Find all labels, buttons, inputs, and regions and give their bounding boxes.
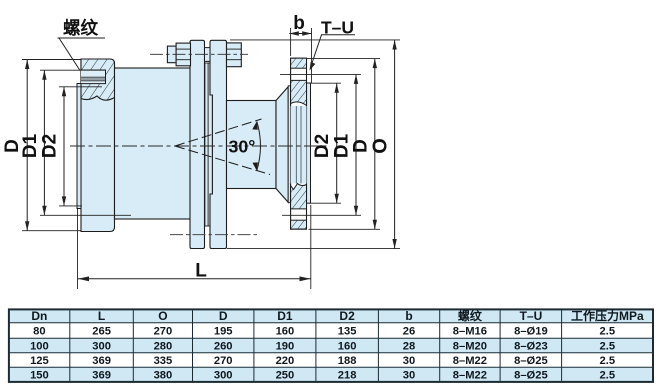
O right extension lines — [230, 39, 400, 41]
nut facet lines — [227, 48, 242, 50]
svg-text:工作压力MPa: 工作压力MPa — [571, 308, 644, 323]
svg-text:D: D — [219, 309, 228, 323]
hub strip — [288, 86, 290, 203]
dimension D1 left line — [43, 70, 45, 215]
bolt hex head — [176, 43, 190, 66]
svg-text:b: b — [405, 309, 412, 323]
arc arrowhead bottom — [252, 161, 259, 171]
dimension D2 right line — [336, 83, 338, 203]
bolt head facet lines — [176, 48, 190, 50]
left flange thread bore box — [81, 70, 106, 84]
svg-text:80: 80 — [33, 326, 45, 338]
thread label underline — [58, 37, 106, 39]
svg-text:D1: D1 — [332, 133, 353, 158]
b extension lines — [290, 28, 292, 56]
bolt end stub — [167, 46, 176, 63]
mid body (right half socket) — [227, 101, 277, 189]
dimension D2 left line — [63, 87, 65, 206]
svg-text:8–Ø25: 8–Ø25 — [514, 355, 548, 367]
pipe stub beyond plate — [307, 83, 311, 203]
svg-text:D1: D1 — [20, 133, 41, 158]
left threaded flange body — [81, 59, 115, 232]
flange plate 2 — [210, 40, 227, 248]
svg-text:8–Ø23: 8–Ø23 — [514, 341, 548, 353]
svg-text:190: 190 — [276, 341, 295, 353]
svg-text:260: 260 — [214, 341, 233, 353]
svg-text:Dn: Dn — [31, 309, 47, 323]
gasket inner edge — [207, 63, 209, 226]
D1 right extension lines — [280, 73, 361, 75]
svg-text:8–Ø19: 8–Ø19 — [514, 326, 548, 338]
TABLE — [9, 308, 653, 382]
table text — [31, 308, 644, 323]
main centerline — [70, 145, 330, 147]
right plate inner bore lines — [295, 106, 297, 184]
dimension D right line — [374, 59, 376, 230]
D1 left extension lines — [40, 69, 106, 71]
svg-text:O: O — [369, 138, 391, 154]
bolt axis centerline — [150, 53, 248, 55]
svg-text:150: 150 — [30, 370, 49, 382]
T-U leader arrowhead — [310, 62, 316, 71]
svg-text:218: 218 — [338, 370, 357, 382]
svg-text:L: L — [195, 261, 207, 282]
svg-text:D2: D2 — [312, 134, 333, 158]
thread leader — [59, 38, 80, 71]
hex nut — [227, 43, 242, 67]
D2 right extension lines — [311, 82, 341, 84]
cone construction line upper — [175, 119, 262, 146]
svg-text:螺纹: 螺纹 — [458, 308, 483, 323]
svg-text:T–U: T–U — [520, 309, 543, 323]
svg-text:250: 250 — [276, 370, 295, 382]
svg-text:30: 30 — [403, 370, 415, 382]
left flange hatched section (top) — [81, 59, 115, 100]
svg-text:2.5: 2.5 — [600, 355, 616, 367]
svg-text:8–Ø25: 8–Ø25 — [514, 370, 548, 382]
D2 left extension lines — [59, 86, 102, 88]
bolt shank between plates — [205, 48, 211, 62]
svg-text:2.5: 2.5 — [600, 370, 616, 382]
svg-text:b: b — [293, 13, 305, 34]
svg-text:300: 300 — [214, 370, 233, 382]
svg-text:280: 280 — [154, 341, 173, 353]
dimension L — [78, 278, 311, 280]
svg-text:D1: D1 — [277, 309, 293, 323]
svg-text:螺纹: 螺纹 — [63, 18, 98, 38]
bottom bolt axis centerline — [170, 234, 258, 236]
svg-text:270: 270 — [214, 355, 233, 367]
right plate hatch block bottom2 — [291, 220, 307, 229]
table background stripes — [9, 309, 653, 322]
svg-text:335: 335 — [154, 355, 173, 367]
cone top slope — [276, 87, 288, 203]
30 degree arc — [257, 121, 261, 170]
right plate bore middle region — [291, 106, 307, 184]
T-U leader — [311, 35, 322, 68]
flange plate 1 (loose) — [190, 40, 205, 248]
right plate hatch block top2 — [291, 80, 307, 105]
right plate hatch block bottom1 — [291, 184, 307, 209]
cone construction line lower — [175, 146, 270, 175]
right flange plate outline — [291, 58, 307, 229]
svg-text:26: 26 — [403, 326, 415, 338]
svg-text:2.5: 2.5 — [600, 341, 616, 353]
svg-text:2.5: 2.5 — [600, 326, 616, 338]
dimension D1 right line — [355, 74, 357, 215]
svg-text:135: 135 — [338, 326, 357, 338]
svg-text:28: 28 — [403, 341, 415, 353]
svg-text:30°: 30° — [229, 137, 256, 157]
table grid — [9, 309, 653, 382]
D right extension lines — [307, 58, 381, 60]
svg-text:188: 188 — [338, 355, 357, 367]
svg-text:369: 369 — [92, 370, 111, 382]
svg-text:D: D — [351, 139, 372, 153]
svg-text:L: L — [98, 309, 105, 323]
dimension D left line — [26, 60, 28, 231]
svg-text:220: 220 — [276, 355, 295, 367]
svg-text:160: 160 — [276, 326, 295, 338]
svg-text:270: 270 — [154, 326, 173, 338]
svg-text:195: 195 — [214, 326, 233, 338]
dimension b — [289, 33, 311, 35]
gasket between plates — [205, 63, 213, 226]
svg-text:8–M22: 8–M22 — [453, 355, 487, 367]
svg-text:160: 160 — [338, 341, 357, 353]
svg-text:369: 369 — [92, 355, 111, 367]
D left extension lines — [22, 59, 81, 61]
svg-text:8–M16: 8–M16 — [453, 326, 487, 338]
T-U underline — [321, 34, 355, 36]
dimension O right line — [394, 40, 396, 249]
L extension lines — [77, 208, 79, 289]
svg-text:D2: D2 — [40, 134, 61, 158]
svg-text:265: 265 — [92, 326, 111, 338]
svg-text:380: 380 — [154, 370, 173, 382]
thread detail lines top — [81, 76, 106, 78]
left flange raised face strip — [77, 84, 81, 209]
right plate hatch block top1 — [291, 58, 307, 68]
svg-text:30: 30 — [403, 355, 415, 367]
arc arrowhead top — [252, 121, 259, 131]
svg-text:125: 125 — [30, 355, 49, 367]
svg-text:300: 300 — [92, 341, 111, 353]
svg-text:D2: D2 — [339, 309, 355, 323]
svg-text:8–M20: 8–M20 — [453, 341, 487, 353]
svg-text:8–M22: 8–M22 — [453, 370, 487, 382]
svg-text:100: 100 — [30, 341, 49, 353]
left pipe body — [115, 68, 191, 219]
svg-text:O: O — [158, 309, 167, 323]
